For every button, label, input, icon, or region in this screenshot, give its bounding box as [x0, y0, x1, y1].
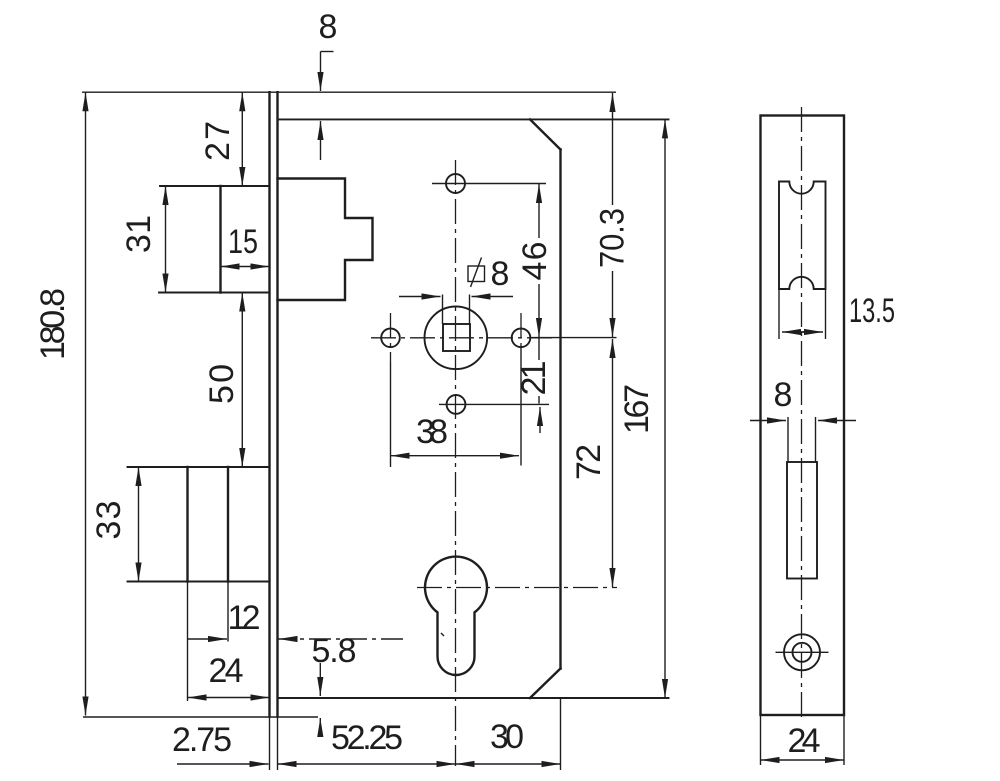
- latch bolt side profile: [278, 179, 373, 301]
- side view latch cutout with notches: [779, 182, 826, 290]
- lock body top-right chamfer: [530, 119, 561, 149]
- svg-text:167: 167: [618, 384, 656, 434]
- svg-text:31: 31: [120, 215, 158, 253]
- dimension 5.8 (body bottom offset): [312, 632, 357, 737]
- spindle follower circle: [425, 307, 488, 370]
- svg-text:72: 72: [570, 444, 608, 480]
- dimension 30 (centerline to body edge): [456, 718, 561, 764]
- svg-text:2.75: 2.75: [172, 721, 232, 759]
- top hole horizontal extension line: [432, 183, 546, 185]
- dimension 72 (spindle to cylinder): [570, 339, 613, 587]
- lock body top edge with extension: [278, 118, 669, 120]
- dimension 46 (top hole to spindle): [516, 184, 554, 337]
- svg-text:38: 38: [416, 413, 448, 451]
- svg-text:12: 12: [228, 599, 261, 637]
- right hole vertical tick: [520, 313, 522, 347]
- svg-text:13.5: 13.5: [849, 292, 895, 330]
- svg-text:24: 24: [788, 722, 821, 760]
- dimension 33 (deadbolt height): [90, 467, 139, 582]
- svg-text:21: 21: [515, 361, 553, 396]
- dimension square-8 arrows: [399, 296, 513, 298]
- dimension 21 (spindle to lower hole): [515, 338, 553, 433]
- deadbolt front view box: [128, 467, 270, 701]
- bottom small hole: [447, 395, 466, 414]
- left fixing hole: [381, 329, 400, 348]
- latch cutout extension lines: [779, 289, 826, 339]
- extension line at spindle level right: [531, 337, 617, 339]
- dimension 12 (deadbolt tail width): [188, 599, 403, 639]
- dimension 31 (latch height): [120, 186, 166, 293]
- svg-text:8: 8: [774, 376, 793, 414]
- svg-text:24: 24: [209, 652, 244, 690]
- dimension 167 (body height): [618, 119, 665, 698]
- faceplate top edge / extension line: [82, 91, 616, 93]
- lock body bottom edge with extension: [278, 697, 669, 699]
- vertical centerline of lock: [455, 160, 457, 766]
- side view screw hole: [776, 634, 829, 670]
- svg-text:52.25: 52.25: [331, 719, 403, 757]
- svg-text:5.8: 5.8: [312, 632, 357, 670]
- dimension 50 (latch to deadbolt): [203, 293, 242, 468]
- dimension 27 (top to latch): [199, 92, 242, 186]
- euro profile cylinder hole: [425, 557, 487, 675]
- spindle square hole: [443, 295, 471, 352]
- svg-text:180.8: 180.8: [34, 288, 72, 360]
- dimension 70.3 (top to spindle): [594, 93, 632, 337]
- side view deadbolt slot: [787, 462, 817, 579]
- dimension 8 (deadbolt slot width): [750, 376, 856, 421]
- right hole extension line down: [520, 347, 522, 466]
- horizontal centerline through cylinder: [417, 587, 617, 589]
- dimension 24 (deadbolt width): [188, 652, 270, 698]
- svg-text:8: 8: [491, 255, 510, 293]
- latch bolt front view box: [159, 186, 270, 293]
- left hole vertical tick: [390, 313, 392, 362]
- dimension 180.8 (overall faceplate height): [34, 92, 86, 715]
- svg-text:8: 8: [319, 8, 338, 46]
- svg-text:30: 30: [490, 718, 524, 756]
- lock body right edge: [559, 150, 561, 669]
- faceplate front view (vertical plate): [270, 92, 278, 770]
- side view faceplate outline: [761, 116, 845, 716]
- side view vertical centerline: [801, 107, 803, 722]
- svg-text:33: 33: [90, 501, 128, 540]
- dimension 38 (hole spacing): [391, 413, 520, 456]
- lock body right edge lower extension line: [560, 698, 562, 770]
- dimension 52.25 (plate to centerline): [278, 719, 456, 764]
- side view bottom extension lines: [761, 715, 845, 765]
- small scan tick inside cylinder stem: [441, 633, 444, 636]
- svg-text:15: 15: [228, 223, 258, 261]
- svg-text:27: 27: [199, 121, 237, 161]
- lock body bottom-right chamfer: [530, 669, 561, 699]
- faceplate bottom edge / extension line: [83, 716, 318, 718]
- bottom hole horizontal extension line: [439, 403, 549, 405]
- dimension 15 (latch width): [221, 223, 270, 267]
- horizontal centerline through spindle: [371, 337, 553, 339]
- svg-text:50: 50: [203, 364, 241, 404]
- dimension square-8 label (spindle square): [468, 255, 509, 293]
- top fixing hole: [446, 174, 465, 193]
- svg-text:70.3: 70.3: [594, 208, 632, 268]
- slot extension lines: [788, 417, 816, 462]
- dimension 13.5 (latch cutout width): [782, 292, 895, 332]
- right fixing hole: [512, 329, 531, 348]
- dimension 24 (faceplate width side view): [761, 722, 845, 760]
- dimension 2.75 (faceplate thickness): [172, 721, 269, 764]
- dimension 8 (top latch offset): [319, 8, 338, 160]
- svg-text:46: 46: [516, 242, 554, 281]
- left hole extension line down: [390, 362, 392, 467]
